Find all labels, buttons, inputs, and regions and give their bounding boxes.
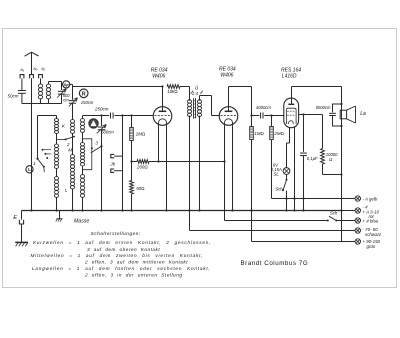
svg-text:2MΩ: 2MΩ: [273, 131, 283, 136]
svg-text:250cm: 250cm: [94, 106, 109, 111]
svg-text:Mittelwellen = 1 auf dem zweit: Mittelwellen = 1 auf dem zweiten bis vie…: [31, 253, 204, 258]
svg-text:50Ω: 50Ω: [136, 186, 144, 191]
svg-text:1MΩ: 1MΩ: [254, 131, 263, 136]
svg-text:W406: W406: [220, 73, 233, 79]
svg-text:2MΩ: 2MΩ: [135, 132, 145, 137]
svg-text:Masse: Masse: [74, 219, 89, 225]
svg-text:L: L: [65, 188, 68, 194]
svg-text:L416D: L416D: [282, 74, 297, 80]
svg-text:grün: grün: [367, 244, 376, 249]
svg-text:3 auf dem oberen Kontakt: 3 auf dem oberen Kontakt: [87, 247, 160, 252]
svg-text:Sch: Sch: [275, 187, 283, 192]
svg-text:Ω: Ω: [329, 157, 332, 162]
svg-text:2 offen, 3 in der unteren Stel: 2 offen, 3 in der unteren Stellung: [84, 272, 183, 277]
svg-text:4000cm: 4000cm: [256, 105, 271, 110]
svg-text:A₀: A₀: [32, 66, 38, 71]
svg-text:Sch: Sch: [330, 211, 338, 216]
svg-text:150cm: 150cm: [81, 100, 94, 105]
svg-text:500cm: 500cm: [101, 130, 114, 135]
svg-text:E: E: [13, 215, 17, 221]
svg-text:R: R: [82, 91, 86, 97]
svg-text:La: La: [360, 111, 366, 117]
svg-text:Schalterstellungen:: Schalterstellungen:: [91, 231, 141, 237]
svg-text:200Ω: 200Ω: [136, 165, 148, 170]
svg-text:0,1µF: 0,1µF: [307, 156, 318, 161]
svg-text:50cm: 50cm: [8, 93, 19, 98]
svg-text:L: L: [28, 167, 31, 172]
svg-text:cm: cm: [63, 97, 69, 102]
svg-text:M: M: [68, 148, 72, 154]
svg-text:A₁: A₁: [19, 67, 25, 72]
svg-text:Sp: Sp: [64, 82, 70, 87]
svg-text:A₂: A₂: [40, 66, 46, 71]
svg-text:1:4: 1:4: [192, 91, 199, 96]
svg-text:schwarz: schwarz: [365, 232, 382, 237]
svg-text:Kurzwellen = 1 auf dem ersten: Kurzwellen = 1 auf dem ersten Kontakt, 2…: [33, 240, 211, 245]
svg-text:+ 4 blau: + 4 blau: [363, 218, 379, 223]
svg-text:Jb: Jb: [109, 161, 115, 166]
svg-text:SL: SL: [274, 172, 280, 177]
svg-text:- A gelb: - A gelb: [363, 196, 378, 201]
svg-text:Brandt Columbus 7G: Brandt Columbus 7G: [241, 260, 309, 267]
svg-text:W406: W406: [152, 74, 165, 80]
svg-text:10kΩ: 10kΩ: [167, 89, 177, 94]
svg-text:5000cm: 5000cm: [316, 105, 331, 110]
svg-text:2: 2: [66, 142, 70, 147]
svg-text:Langwellen = 1 auf dem fünften: Langwellen = 1 auf dem fünften oder sech…: [32, 266, 211, 271]
svg-text:2 offen, 3 auf dem mittleren K: 2 offen, 3 auf dem mittleren Kontakt: [84, 260, 188, 265]
